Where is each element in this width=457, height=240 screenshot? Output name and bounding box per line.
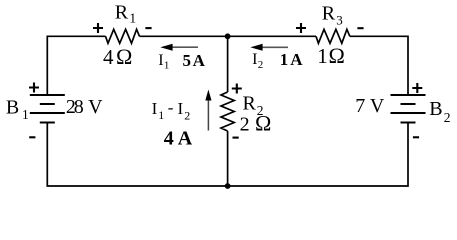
svg-text:Ω: Ω [116,44,132,69]
svg-text:1: 1 [158,108,164,122]
svg-text:8: 8 [74,96,84,118]
svg-text:1: 1 [280,50,289,69]
svg-text:7 V: 7 V [355,95,385,117]
svg-text:Ω: Ω [329,43,345,68]
wire node A to R3 left lead [228,35,316,37]
svg-text:5: 5 [183,51,192,70]
R1 value 4 ohm [103,44,132,69]
B1 value 28 V [66,96,103,118]
wire node B to B2 negative terminal [228,123,408,187]
svg-text:R: R [115,1,129,23]
current I1 arrow [160,44,198,51]
resistor R1 [106,29,140,43]
B2 minus polarity mark [413,136,419,138]
svg-text:B: B [429,98,442,120]
svg-text:2: 2 [444,110,451,125]
svg-text:R: R [322,3,336,25]
svg-text:4 A: 4 A [164,127,193,149]
svg-text:2: 2 [184,109,190,123]
svg-text:I: I [178,99,184,118]
svg-text:I: I [158,52,163,69]
svg-text:I: I [152,99,158,118]
node A junction dot [225,33,231,39]
wire R3 right lead down to B2 positive terminal [350,36,408,95]
resistor R3 [316,29,350,43]
wire B1 negative terminal to bottom rail left [47,123,227,187]
resistor R2 [221,92,234,131]
svg-text:A: A [193,51,206,70]
branch current label I1 minus I2 [152,98,191,122]
svg-text:1: 1 [164,59,170,71]
R1 plus polarity mark [93,23,103,33]
svg-text:B: B [6,96,19,118]
svg-text:1: 1 [317,44,328,68]
current I1 label 5 A [158,51,205,72]
R2 plus polarity mark [232,84,242,94]
resistor R3 label [322,3,343,28]
wire R2 bottom to node B [227,131,229,186]
battery B2 label [429,98,450,125]
R1 minus polarity mark [145,27,151,29]
resistor R2 label [243,92,264,118]
R3 minus polarity mark [357,27,363,29]
svg-text:-: - [168,98,174,117]
svg-text:4: 4 [103,45,114,69]
svg-text:I: I [252,51,257,68]
wire node A down to R2 top [227,36,229,92]
current I2 arrow [250,44,288,51]
wire B1 positive terminal up to R1 left lead [47,36,105,95]
B1 plus polarity mark [29,83,39,93]
R3 value 1 ohm [317,43,345,68]
battery B1 label [6,96,29,122]
R2 minus polarity mark [233,137,239,139]
svg-text:V: V [88,96,103,118]
svg-text:3: 3 [336,12,343,27]
svg-text:1: 1 [22,107,29,122]
svg-text:2: 2 [258,59,264,71]
resistor R1 label [115,1,136,25]
R2 value 2 ohm [240,110,272,135]
branch current arrow I1 minus I2 [205,90,211,131]
svg-text:2: 2 [240,113,250,135]
node B junction dot [225,183,231,189]
current I2 label 1 A [252,50,303,71]
svg-text:1: 1 [129,11,136,26]
battery B2 [391,95,426,123]
B1 minus polarity mark [29,136,35,138]
B2 plus polarity mark [412,83,422,93]
svg-text:Ω: Ω [255,110,271,135]
svg-text:A: A [290,50,303,69]
battery B1 [30,95,65,123]
R3 plus polarity mark [296,23,306,33]
wire R1 right lead to node A [140,35,228,37]
